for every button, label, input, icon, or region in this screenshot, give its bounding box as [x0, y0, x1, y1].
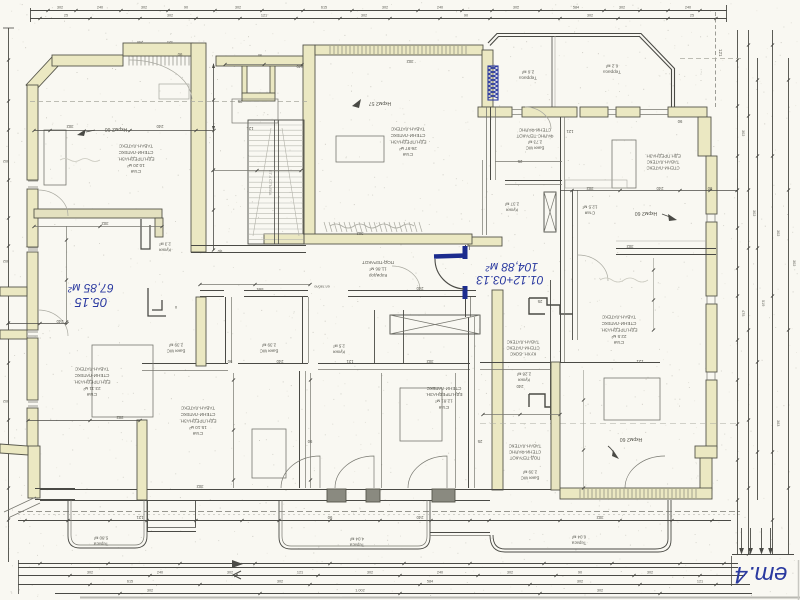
door arc bottom room3 [408, 456, 447, 488]
wc core black outline [529, 298, 573, 314]
svg-text:6.04 м²: 6.04 м² [571, 534, 586, 539]
vestibule box [232, 99, 278, 123]
svg-text:Тераса: Тераса [571, 540, 586, 545]
dim line y170 stairhall [213, 170, 301, 172]
bed right [604, 378, 660, 420]
svg-text:302: 302 [116, 415, 124, 420]
svg-text:6.2 м²: 6.2 м² [605, 63, 618, 68]
svg-text:302: 302 [3, 159, 9, 163]
svg-text:302: 302 [597, 588, 603, 592]
furniture top-right [612, 140, 636, 188]
window hatch centre top [329, 46, 331, 54]
label terrace B3 [571, 534, 586, 545]
svg-text:90: 90 [707, 186, 712, 191]
svg-text:Баня WC: Баня WC [521, 475, 540, 480]
dim line y190 mid [560, 190, 737, 192]
svg-text:ЕДН.ПРЕДНАЗН.: ЕДН.ПРЕДНАЗН. [425, 392, 462, 397]
svg-text:2.28 м²: 2.28 м² [516, 371, 531, 376]
label bath wc 2 [260, 342, 279, 353]
dim line x653 [653, 258, 655, 330]
dashed line y58 right [680, 58, 744, 60]
svg-text:240: 240 [516, 384, 524, 389]
window hatch bottom-right wall [579, 489, 581, 498]
scribble left room [60, 159, 100, 162]
window lines left wall [28, 180, 38, 182]
svg-text:302: 302 [406, 59, 414, 64]
svg-text:90: 90 [307, 439, 312, 444]
svg-text:25: 25 [64, 14, 68, 18]
blue note ET4 [735, 561, 788, 588]
svg-text:90: 90 [578, 570, 582, 574]
label room top-centre [389, 127, 426, 158]
svg-text:121: 121 [261, 14, 267, 18]
wall top B [123, 43, 193, 56]
svg-text:ТАВАН-ЛАТЕКС: ТАВАН-ЛАТЕКС [74, 367, 109, 372]
wall x551 vertical [551, 362, 560, 490]
svg-text:22.5 м²: 22.5 м² [611, 334, 626, 339]
svg-text:СТЕНИ-ФАЯНС: СТЕНИ-ФАЯНС [519, 127, 551, 132]
svg-text:Стая: Стая [613, 340, 624, 345]
svg-text:302: 302 [426, 359, 434, 364]
svg-text:90: 90 [184, 6, 188, 10]
dimension line top [30, 10, 727, 12]
door arc top-left [129, 60, 192, 99]
svg-text:ТАВАН-ЛАТЕКС: ТАВАН-ЛАТЕКС [647, 159, 680, 164]
wall x466 door wall [465, 245, 467, 250]
wall right seg4 [706, 380, 717, 448]
svg-text:ЕДН.ПРЕДНАЗН.: ЕДН.ПРЕДНАЗН. [117, 156, 154, 161]
svg-text:26.97 м²: 26.97 м² [399, 146, 417, 151]
wall bottom main line1 [40, 489, 560, 491]
svg-text:4.04 м²: 4.04 м² [349, 536, 364, 541]
label bath top-right [516, 127, 553, 150]
svg-text:302: 302 [577, 579, 583, 583]
svg-text:5.80 м²: 5.80 м² [93, 535, 108, 540]
bed top-left [44, 130, 66, 185]
svg-text:302: 302 [587, 14, 593, 18]
wc core lower [529, 394, 559, 407]
shaft crossed narrow [544, 192, 556, 232]
svg-text:240: 240 [296, 64, 304, 69]
blue door leaf [434, 256, 466, 257]
blue door jamb lower [463, 286, 468, 299]
balcony B1 outline [68, 500, 147, 548]
wall x560 vertical [560, 117, 562, 362]
svg-text:11.86 м²: 11.86 м² [369, 266, 387, 271]
wall y107 seg4 [616, 107, 640, 117]
blue hatch on wall [488, 66, 498, 98]
wall y161 [495, 161, 562, 163]
wall left outer seg3 [27, 252, 38, 330]
wall chamfer bottom-left [0, 444, 28, 455]
dim line y285 corridor [200, 284, 310, 286]
svg-text:2.37 м²: 2.37 м² [504, 201, 519, 206]
label room bottom-centre [425, 386, 462, 410]
wall pier 1 [327, 489, 346, 502]
svg-text:302: 302 [356, 231, 364, 236]
svg-text:240: 240 [157, 570, 163, 574]
wall left bottom [28, 446, 40, 498]
svg-text:Баня WC: Баня WC [260, 348, 279, 353]
wall centre-unit left [303, 45, 315, 235]
corridor wall lower y296 [200, 296, 224, 298]
svg-text:302: 302 [596, 515, 604, 520]
svg-text:СТЕНИ-ЛАТЕКС: СТЕНИ-ЛАТЕКС [118, 150, 153, 155]
scan edge shade bottom [80, 597, 800, 599]
wall right lower [700, 458, 712, 490]
svg-text:121: 121 [297, 570, 303, 574]
note Nerm2-57 top-centre [352, 99, 361, 108]
svg-text:12.81 м²: 12.81 м² [435, 399, 453, 404]
door arc right room [625, 456, 665, 488]
section arrow marker [232, 560, 243, 568]
svg-text:302: 302 [167, 14, 173, 18]
svg-text:ет.4: ет.4 [735, 561, 788, 588]
label shaft small [314, 285, 329, 289]
svg-text:240: 240 [97, 6, 103, 10]
svg-text:302: 302 [235, 6, 241, 10]
svg-text:01.12+03.13: 01.12+03.13 [476, 273, 543, 287]
wall y107 seg3 [580, 107, 608, 117]
wall top-left chamfer [26, 57, 60, 92]
door arc bottom room1 [281, 456, 320, 488]
wall y107 seg1 [478, 107, 512, 117]
elevator shaft wall right [270, 60, 275, 94]
left edge stub 2 [0, 330, 27, 339]
wall pier 3 [432, 489, 455, 502]
svg-text:90: 90 [258, 53, 262, 57]
wall spine vertical [492, 290, 503, 490]
wall left outer seg2 [27, 189, 38, 247]
svg-text:121: 121 [566, 129, 574, 134]
svg-text:15.10 м²: 15.10 м² [189, 425, 207, 430]
elevator shaft wall bottom [242, 93, 275, 101]
svg-text:СТЕНИ-ЛАТЕКС: СТЕНИ-ЛАТЕКС [180, 412, 215, 417]
svg-text:302: 302 [196, 484, 204, 489]
bed bottom-left [92, 345, 153, 417]
terrace parapet top [488, 34, 675, 108]
svg-text:Тераса: Тераса [349, 542, 364, 547]
wall x490 mid [490, 107, 492, 180]
bed mid-right [565, 180, 627, 188]
svg-text:Баня WC: Баня WC [526, 145, 545, 150]
svg-text:302: 302 [382, 6, 388, 10]
svg-text:302: 302 [3, 399, 9, 403]
svg-text:302: 302 [3, 259, 9, 263]
terrace divider x552 [551, 36, 553, 107]
svg-text:302: 302 [776, 230, 780, 236]
elevator shaft wall left [242, 60, 247, 94]
stairhall bottom wall [191, 245, 306, 247]
svg-text:Терраса: Терраса [603, 69, 621, 74]
ledge lines above y248 [616, 240, 706, 242]
svg-text:ФАЯНС-ТЕРАКОТ: ФАЯНС-ТЕРАКОТ [516, 133, 553, 138]
wall centre-unit right upper [482, 50, 493, 107]
dim line y64 stairhall [225, 64, 302, 66]
svg-text:90: 90 [227, 359, 232, 364]
svg-text:240: 240 [437, 6, 443, 10]
left edge stub 1 [0, 287, 27, 296]
scribble top-centre room [330, 224, 414, 228]
bed bottom-centre-left [252, 429, 286, 478]
svg-text:240: 240 [56, 319, 64, 324]
svg-text:25: 25 [477, 439, 482, 444]
svg-text:240: 240 [137, 40, 143, 44]
svg-text:ТАВАН-ЛАТЕКС: ТАВАН-ЛАТЕКС [180, 406, 215, 411]
wall right step [695, 446, 717, 458]
wall centre-bottom y234 [264, 234, 472, 244]
svg-text:519: 519 [761, 300, 765, 306]
wall vertical x195 [191, 43, 206, 252]
svg-text:Стая: Стая [192, 431, 203, 436]
dim line x213 [213, 64, 215, 250]
svg-text:302: 302 [586, 186, 594, 191]
svg-text:СТЕНИ-ЛАТЕКС: СТЕНИ-ЛАТЕКС [601, 321, 636, 326]
blue door jamb upper [463, 246, 468, 259]
svg-text:302: 302 [141, 6, 147, 10]
label terrace big [603, 63, 621, 74]
label room top-left [117, 144, 154, 175]
dashed line x715 [715, 12, 717, 108]
label kitchen centre [333, 343, 345, 354]
svg-text:Тераса: Тераса [93, 541, 108, 546]
window hatch top A [128, 57, 130, 66]
wall left outer seg5 [27, 408, 38, 448]
bed bottom-centre [400, 388, 442, 441]
staircase [248, 120, 304, 244]
svg-text:ЕДН.ПРЕДНАЗН.: ЕДН.ПРЕДНАЗН. [73, 379, 110, 384]
svg-text:Кухня: Кухня [159, 247, 171, 252]
wall y363 [142, 363, 228, 365]
svg-text:2.6 м²: 2.6 м² [521, 69, 534, 74]
svg-text:121: 121 [636, 359, 644, 364]
wall x572 vertical [572, 190, 574, 340]
svg-text:1.002: 1.002 [355, 588, 365, 592]
wall stub x155 [155, 218, 163, 237]
svg-text:240: 240 [416, 515, 424, 520]
svg-text:2.73 м²: 2.73 м² [527, 139, 542, 144]
balcony B2 outline [279, 500, 430, 549]
svg-text:302: 302 [66, 124, 74, 129]
wall bottom main line2 [40, 500, 490, 502]
wall y362 right [480, 362, 660, 364]
door arc bottom room2 [335, 456, 374, 488]
wall right seg3 [706, 304, 717, 372]
label room bottom-left2 [179, 406, 216, 437]
svg-text:90: 90 [464, 14, 468, 18]
svg-text:302: 302 [752, 210, 756, 216]
label corridor [362, 260, 394, 278]
wall x486 lower thin [486, 107, 488, 235]
wall y180 centre-right [505, 180, 562, 182]
svg-text:67,85 м²: 67,85 м² [67, 281, 114, 295]
svg-text:ел.табло: ел.табло [314, 285, 329, 289]
svg-text:ПОД-ТЕРАКОТ: ПОД-ТЕРАКОТ [509, 455, 540, 460]
svg-text:302: 302 [619, 6, 625, 10]
svg-text:302: 302 [647, 570, 653, 574]
wall right seg2 [706, 222, 717, 296]
window lines right wall [706, 214, 708, 222]
dimension lines right margin [737, 30, 739, 554]
svg-text:СТЕНИ-ФАЯНС: СТЕНИ-ФАЯНС [509, 449, 541, 454]
label kitchen mid [504, 201, 519, 212]
wall x137 vertical [137, 420, 147, 500]
svg-text:ЕДН.ПРЕДНАЗН.: ЕДН.ПРЕДНАЗН. [179, 418, 216, 423]
stairhall top wall [216, 56, 306, 66]
wall x302 lower [299, 371, 301, 488]
wall centre-unit top [315, 45, 483, 55]
svg-text:ЕДН.ПРЕДНАЗН.: ЕДН.ПРЕДНАЗН. [600, 327, 637, 332]
svg-text:302: 302 [513, 6, 519, 10]
svg-text:ПОД-ТЕРАКОТ: ПОД-ТЕРАКОТ [362, 260, 394, 265]
label room top-right [645, 153, 680, 170]
balcony B3 outline [490, 500, 671, 552]
label room left [73, 367, 110, 398]
wall y209 left unit [34, 209, 162, 218]
svg-text:2.39 м²: 2.39 м² [261, 342, 276, 347]
svg-text:8: 8 [175, 305, 177, 309]
balcony ledge B2-B3 [430, 532, 490, 534]
svg-text:584: 584 [427, 579, 433, 583]
svg-text:302: 302 [792, 260, 796, 266]
dim line y423 centre [480, 423, 740, 425]
svg-text:Стая: Стая [584, 210, 595, 215]
door arc left lower [38, 310, 68, 336]
svg-text:Нкрм2 60: Нкрм2 60 [635, 210, 658, 216]
svg-text:302: 302 [57, 6, 63, 10]
wall x550 vertical [550, 280, 552, 420]
dim line y414 bath [483, 414, 560, 416]
svg-text:90: 90 [327, 515, 332, 520]
svg-text:2.39 м²: 2.39 м² [522, 469, 537, 474]
dashed line y514 [18, 514, 740, 516]
chamfer lines bottom-left corner [4, 497, 36, 512]
svg-text:302: 302 [741, 130, 745, 136]
svg-text:Стая: Стая [86, 392, 97, 397]
svg-text:ЕТ.4 СТЪЛБА: ЕТ.4 СТЪЛБА [268, 170, 273, 196]
fixture small rect TL [159, 84, 189, 99]
svg-text:584: 584 [573, 6, 579, 10]
svg-text:2.3 м²: 2.3 м² [159, 241, 171, 246]
svg-text:ТАВАН-ЛАТЕКС: ТАВАН-ЛАТЕКС [601, 315, 636, 320]
svg-text:302: 302 [277, 579, 283, 583]
label bath bottom-right2 [521, 469, 540, 480]
svg-text:05.15: 05.15 [74, 295, 107, 310]
svg-text:СТЕНИ-ЛАТЕКС: СТЕНИ-ЛАТЕКС [506, 345, 539, 350]
svg-text:240: 240 [656, 186, 664, 191]
label bath bottom-right [509, 443, 542, 460]
label terrace small [519, 69, 537, 80]
svg-text:240: 240 [156, 124, 164, 129]
kitchen stub left unit [141, 219, 150, 249]
svg-text:Кухня: Кухня [518, 377, 530, 382]
svg-text:363: 363 [776, 420, 780, 426]
dashed line y511 [18, 511, 740, 513]
svg-text:12.5 м²: 12.5 м² [582, 204, 597, 209]
svg-text:302: 302 [147, 588, 153, 592]
wall bottom-right [560, 488, 712, 499]
svg-text:121: 121 [346, 359, 354, 364]
label terrace B2 [349, 536, 364, 547]
dashed line y101 [30, 101, 310, 103]
svg-text:302: 302 [626, 244, 634, 249]
svg-text:23.11 м²: 23.11 м² [83, 386, 101, 391]
dim line y420 left [28, 420, 140, 422]
svg-text:90: 90 [217, 249, 222, 254]
svg-text:ТАВАН-ЛАТЕКС: ТАВАН-ЛАТЕКС [390, 127, 425, 132]
svg-text:302: 302 [87, 570, 93, 574]
svg-text:90: 90 [177, 52, 182, 57]
wall x470 [468, 317, 470, 488]
svg-text:ТАВАН-ЛАТЕКС: ТАВАН-ЛАТЕКС [507, 339, 540, 344]
paper speckle noise [259, 92, 260, 93]
svg-text:302: 302 [507, 570, 513, 574]
svg-text:КУХН.-БОКС: КУХН.-БОКС [510, 351, 536, 356]
door arc terrace mid [525, 107, 551, 129]
svg-text:25: 25 [517, 159, 522, 164]
bath walls verticals [225, 297, 227, 363]
svg-text:Стая: Стая [402, 152, 413, 157]
svg-text:Нкрм2 60: Нкрм2 60 [105, 126, 128, 132]
svg-text:ТАВАН-ЛАТЕКС: ТАВАН-ЛАТЕКС [509, 443, 542, 448]
wall y488 left [35, 488, 75, 490]
wall y107 seg2 [522, 107, 577, 117]
svg-text:615: 615 [127, 579, 133, 583]
svg-text:Стая: Стая [130, 169, 141, 174]
svg-text:25: 25 [537, 299, 542, 304]
svg-text:ЕДН.ПРЕДНАЗН.: ЕДН.ПРЕДНАЗН. [645, 153, 680, 158]
scribble right room [600, 278, 648, 282]
wardrobe crossed box [390, 315, 480, 334]
svg-text:10.20 м²: 10.20 м² [127, 163, 145, 168]
label room right small [582, 204, 597, 215]
wall right upper [698, 117, 711, 156]
dimension lines bottom band [18, 520, 731, 522]
note Nerm2-60 top-left [77, 129, 86, 136]
svg-text:240: 240 [685, 6, 691, 10]
svg-text:121: 121 [167, 40, 173, 44]
svg-text:475: 475 [741, 310, 745, 316]
door swing arc centre [435, 259, 464, 289]
svg-text:2.5 м²: 2.5 м² [333, 343, 345, 348]
note Nerm2-60 bottom-right [620, 436, 643, 442]
door arc left mid [38, 190, 68, 216]
svg-text:302: 302 [101, 221, 109, 226]
wall top A [52, 55, 123, 66]
label kitchen right2 [516, 371, 531, 382]
label room right [600, 315, 637, 346]
svg-text:90: 90 [677, 119, 682, 124]
dimension line left [8, 28, 10, 562]
svg-text:615: 615 [321, 6, 327, 10]
corridor wall upper y290 [200, 290, 224, 292]
scan edge shade right [798, 560, 800, 600]
wall pier 2 [366, 489, 380, 502]
svg-text:ТАВАН-ЛАТЕКС: ТАВАН-ЛАТЕКС [118, 144, 153, 149]
label kitchen right [506, 339, 539, 356]
svg-text:2.39 м²: 2.39 м² [168, 342, 183, 347]
svg-text:Кухня: Кухня [333, 349, 345, 354]
dim line x66 left [66, 226, 68, 322]
label bath wc 1 [167, 342, 186, 353]
label terrace B1 [93, 535, 108, 546]
svg-text:Коридор: Коридор [368, 273, 387, 278]
svg-text:121: 121 [136, 515, 144, 520]
svg-text:302: 302 [367, 570, 373, 574]
svg-text:302: 302 [227, 570, 233, 574]
label kitchen small left [159, 241, 171, 252]
svg-text:СТЕНИ-ЛАТЕКС: СТЕНИ-ЛАТЕКС [390, 133, 425, 138]
